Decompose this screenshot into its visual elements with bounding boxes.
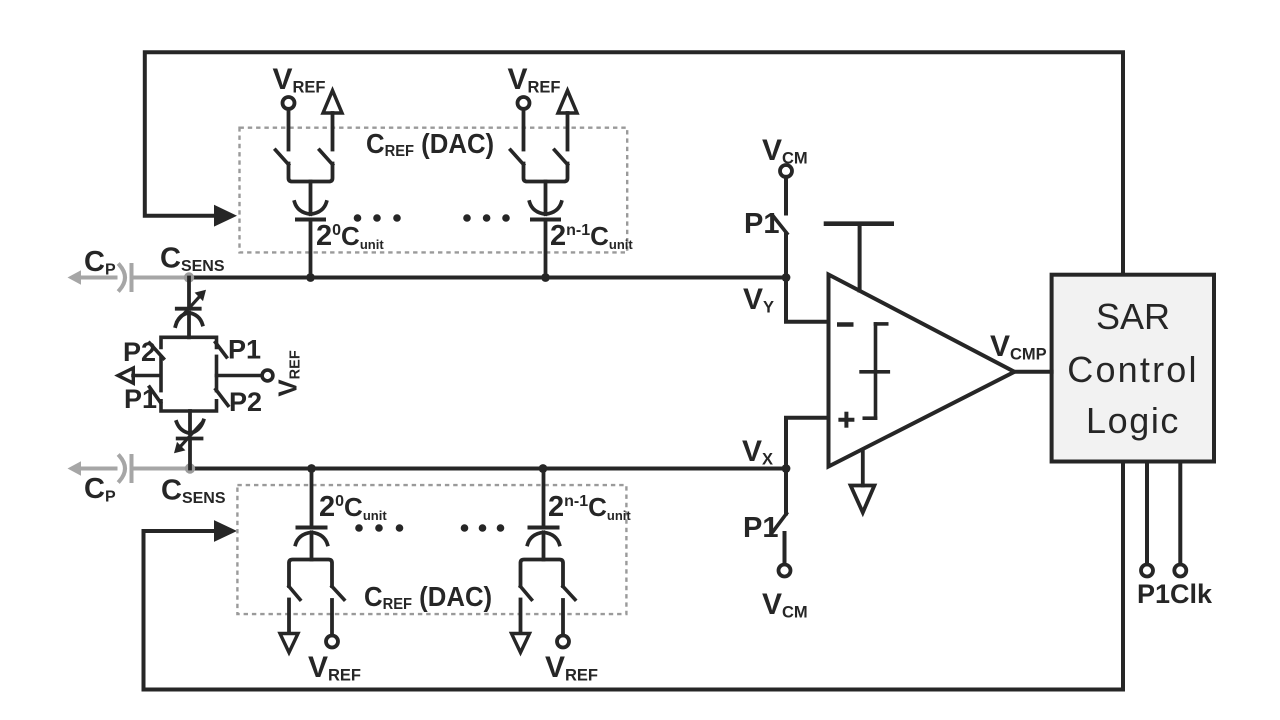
label Vcmp bbox=[990, 330, 1047, 364]
label Vy bbox=[743, 283, 774, 317]
svg-text:P1Clk: P1Clk bbox=[1137, 579, 1213, 609]
svg-text:SAR: SAR bbox=[1096, 296, 1170, 337]
label P1 bottom-left bbox=[124, 384, 157, 414]
node Csens top junction (gray) bbox=[184, 272, 194, 282]
node Vy-DAC bitN junction bbox=[541, 273, 550, 282]
label 2^0 Cunit bottom bbox=[319, 491, 387, 523]
capacitor Cp bottom (parasitic, gray) bbox=[68, 456, 190, 481]
wire bridge to output arrow bbox=[133, 374, 160, 378]
svg-text:Logic: Logic bbox=[1086, 400, 1180, 441]
label Vref bottom-left bbox=[308, 651, 361, 685]
switch P1 blade top-right bbox=[216, 343, 227, 358]
switch P1 top bbox=[774, 177, 788, 278]
label 2^n-1 Cunit top bbox=[550, 220, 633, 252]
label Vref mid (rotated) bbox=[273, 350, 304, 396]
switch bridge top bar bbox=[161, 337, 217, 347]
ellipsis dots bottom DAC bbox=[355, 524, 504, 532]
switch bridge bottom bar bbox=[161, 401, 217, 411]
wire Clk output terminal bbox=[1178, 462, 1182, 564]
SAR Control Logic block U1 bbox=[1052, 275, 1214, 462]
ellipsis dots top DAC bbox=[354, 214, 510, 222]
wire top feedback loop (SAR output to top DAC) bbox=[145, 52, 1123, 275]
switch P2 blade top-left bbox=[150, 343, 164, 359]
node Vx junction bbox=[782, 464, 791, 473]
switch P1 bottom bbox=[773, 469, 787, 565]
svg-text:P2: P2 bbox=[229, 387, 262, 417]
node output arrow (open) bbox=[118, 368, 133, 383]
label P1 bottom switch bbox=[743, 512, 778, 544]
node Vx-DAC bit0 junction bbox=[307, 464, 316, 473]
wire Vcmp output bbox=[1015, 370, 1052, 374]
wire P1 output terminal bbox=[1145, 462, 1149, 564]
wire Vy to comparator minus input bbox=[786, 278, 829, 322]
wire comparator tail bbox=[861, 450, 865, 486]
label Cref (DAC) bottom bbox=[364, 581, 492, 613]
wire Vx rail bbox=[190, 467, 786, 471]
svg-text:P2: P2 bbox=[123, 337, 156, 367]
wire Vx to comparator plus input bbox=[786, 418, 829, 469]
switch/capacitor DAC bit 2^n-1 C2 top bbox=[511, 91, 578, 278]
comparator minus input marker bbox=[837, 322, 854, 327]
node Vy-DAC bit0 junction bbox=[306, 273, 315, 282]
label 2^0 Cunit top bbox=[316, 220, 384, 252]
label Cref (DAC) top bbox=[366, 128, 494, 160]
capacitor Csens top (variable) bbox=[175, 278, 206, 338]
wire bridge right mid bbox=[215, 356, 219, 390]
label Cp bottom bbox=[84, 473, 116, 506]
terminal Vref mid bbox=[262, 370, 273, 381]
wire bridge to Vref terminal bbox=[217, 374, 263, 378]
label Vref bottom-right bbox=[545, 651, 598, 685]
switch/capacitor DAC bit 2^n-1 C4 bottom bbox=[512, 469, 576, 653]
label P1 top-right bbox=[228, 335, 261, 365]
label Cp top bbox=[84, 246, 116, 279]
switch/capacitor DAC bit 2^0 C1 top bbox=[276, 91, 343, 278]
label Vref top-right bbox=[508, 63, 561, 97]
label P2 bottom-right bbox=[229, 387, 262, 417]
terminal Clk bbox=[1174, 565, 1186, 577]
label Vcm bottom bbox=[762, 588, 808, 622]
terminal P1 bbox=[1141, 565, 1153, 577]
label Csens bottom bbox=[161, 475, 226, 508]
comparator clock strobe bar bbox=[826, 224, 892, 291]
comparator internal latch symbol bbox=[861, 324, 888, 418]
wire bottom feedback loop (SAR output to bottom DAC) bbox=[144, 462, 1124, 690]
label Csens top bbox=[160, 243, 225, 276]
ground bbox=[851, 486, 875, 513]
switch/capacitor DAC bit 2^0 C3 bottom bbox=[280, 469, 344, 653]
capacitor Csens bottom (variable) bbox=[174, 411, 204, 469]
svg-text:P1: P1 bbox=[124, 384, 157, 414]
terminal Vcm bottom bbox=[779, 565, 791, 577]
wire bridge left mid bbox=[159, 357, 163, 391]
switch P1 blade bottom-left bbox=[150, 387, 161, 403]
dashed box Cref DAC bottom bbox=[237, 485, 626, 614]
label 2^n-1 Cunit bottom bbox=[548, 491, 631, 523]
label P1 top switch bbox=[744, 208, 779, 240]
node Vx-DAC bitN junction bbox=[539, 464, 548, 473]
switch P2 blade bottom-right bbox=[216, 390, 228, 406]
label P2 top-left bbox=[123, 337, 156, 367]
wire Vy rail bbox=[189, 276, 786, 280]
svg-text:P1: P1 bbox=[744, 208, 779, 240]
comparator plus input marker bbox=[838, 412, 854, 428]
label P1Clk bbox=[1137, 579, 1213, 609]
op-amp comparator U2 bbox=[829, 275, 1015, 467]
label Vx bbox=[742, 435, 773, 469]
svg-text:Control: Control bbox=[1067, 349, 1198, 390]
label Vref top-left bbox=[273, 63, 326, 97]
terminal Vcm top bbox=[780, 165, 792, 177]
label Vcm top bbox=[762, 134, 808, 168]
node Csens bottom junction (gray) bbox=[185, 463, 195, 473]
svg-text:P1: P1 bbox=[743, 512, 778, 544]
svg-text:P1: P1 bbox=[228, 335, 261, 365]
capacitor Cp top (parasitic, gray) bbox=[68, 265, 189, 290]
node Vy junction bbox=[782, 273, 791, 282]
dashed box Cref DAC top bbox=[240, 128, 628, 253]
